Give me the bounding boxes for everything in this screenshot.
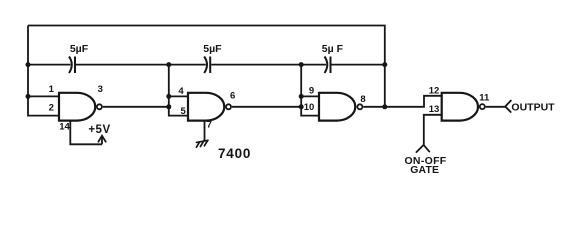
svg-text:GATE: GATE	[410, 165, 439, 176]
svg-text:8: 8	[360, 94, 365, 105]
svg-text:2: 2	[49, 102, 54, 113]
svg-text:11: 11	[479, 93, 490, 104]
svg-text:7: 7	[207, 120, 212, 131]
svg-text:12: 12	[429, 86, 440, 97]
svg-text:4: 4	[178, 86, 184, 97]
svg-text:OUTPUT: OUTPUT	[511, 101, 555, 113]
svg-text:5µF: 5µF	[203, 43, 222, 55]
svg-text:10: 10	[304, 102, 315, 113]
svg-text:7400: 7400	[218, 146, 251, 161]
svg-text:3: 3	[98, 84, 103, 95]
svg-text:9: 9	[309, 86, 314, 97]
svg-text:5: 5	[181, 106, 187, 117]
svg-text:6: 6	[230, 91, 235, 102]
svg-text:13: 13	[429, 104, 440, 115]
svg-text:+5V: +5V	[88, 124, 110, 136]
svg-text:5µ F: 5µ F	[322, 43, 344, 55]
svg-text:5µF: 5µF	[70, 43, 89, 55]
svg-text:14: 14	[59, 122, 70, 133]
svg-text:1: 1	[49, 84, 55, 95]
